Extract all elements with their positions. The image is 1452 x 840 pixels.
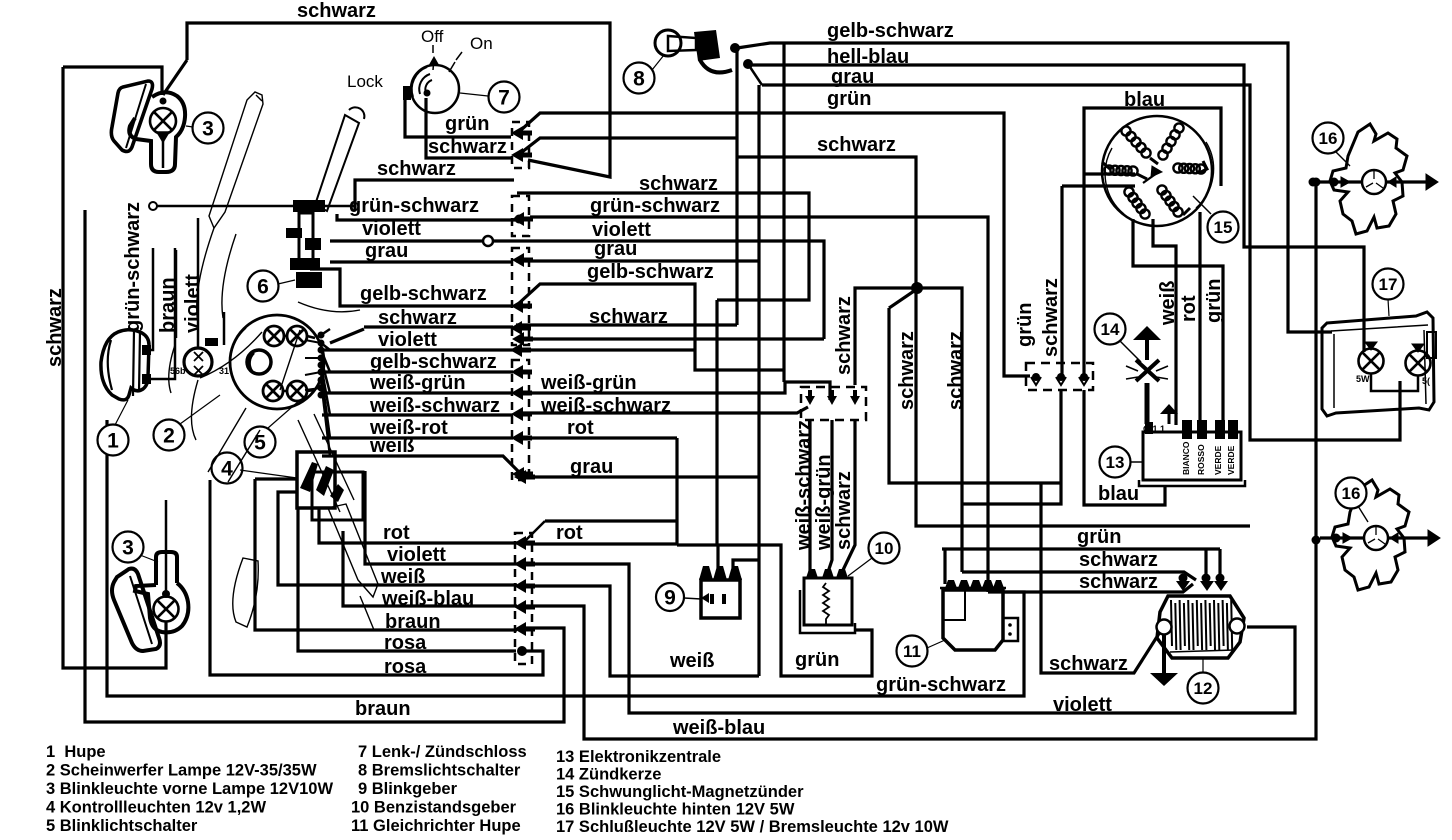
blinker16 bottom left terminal xyxy=(1332,534,1341,543)
svg-text:weiß: weiß xyxy=(380,566,425,588)
svg-text:1: 1 xyxy=(107,429,119,452)
svg-text:3 Blinkleuchte vorne Lampe 12V: 3 Blinkleuchte vorne Lampe 12V10W xyxy=(46,780,333,798)
headlamp lamp connection stubs xyxy=(284,336,315,391)
wire grau left row xyxy=(330,260,513,263)
svg-text:grün: grün xyxy=(827,88,871,110)
svg-text:7 Lenk-/ Zündschloss: 7 Lenk-/ Zündschloss xyxy=(358,743,527,761)
switchbox second body xyxy=(312,472,363,520)
svg-text:3: 3 xyxy=(202,117,214,140)
svg-text:Off: Off xyxy=(421,27,444,46)
svg-text:16: 16 xyxy=(1319,129,1338,148)
blinker top terminal dot xyxy=(160,98,167,105)
headlamp pilot lamp 3 xyxy=(263,381,283,401)
leader circle 16 bottom xyxy=(1358,506,1368,522)
taillight lamp1 arrow xyxy=(1365,342,1377,350)
designator circle 3 bottom xyxy=(113,532,144,563)
wire schwarz magneto stub xyxy=(1062,184,1135,187)
wire row 339 xyxy=(519,337,824,340)
wire weiss-schwarz right row xyxy=(522,407,808,413)
wire rot jog diagonal xyxy=(522,521,545,544)
designator circle 15 xyxy=(1208,212,1239,243)
wire vertical brake to weiss-gruen jog xyxy=(782,43,785,382)
svg-text:grün-schwarz: grün-schwarz xyxy=(590,195,720,217)
svg-text:grau: grau xyxy=(365,240,408,262)
svg-text:braun: braun xyxy=(385,611,441,633)
magneto coil end marks xyxy=(1102,158,1207,215)
wire braun left vertical to bottom xyxy=(85,210,564,722)
magneto coil SE xyxy=(1157,185,1182,216)
wire violett left row xyxy=(330,239,484,242)
svg-text:ROSSO: ROSSO xyxy=(1196,444,1206,475)
designator circle 6 xyxy=(248,271,279,302)
headlamp bundle terminal 1 xyxy=(318,340,325,347)
wire rot feed blinkgeber xyxy=(716,545,719,568)
svg-text:grau: grau xyxy=(831,66,874,88)
fuel gauge connector dashed box xyxy=(801,387,866,420)
svg-text:rot: rot xyxy=(1178,295,1200,322)
svg-text:16: 16 xyxy=(1342,484,1361,503)
rectifier terminal dots xyxy=(1202,574,1211,583)
wire braun switchbox vertical xyxy=(255,479,517,630)
ignition arrow xyxy=(430,57,438,64)
svg-text:2 Scheinwerfer Lampe 12V-35/35: 2 Scheinwerfer Lampe 12V-35/35W xyxy=(46,762,317,780)
pin gelb-schwarz A xyxy=(511,299,532,313)
wire schwarz long mid vertical xyxy=(916,288,1250,526)
svg-text:5: 5 xyxy=(254,431,266,454)
wire weiss-schwarz headlamp row xyxy=(322,413,513,416)
wire gelb-schwarz left row xyxy=(310,269,511,306)
blinker bottom terminal xyxy=(162,590,170,598)
headlamp bundle terminal 7 xyxy=(318,385,325,392)
svg-text:11: 11 xyxy=(903,642,921,661)
wire blau pin3 to box13 xyxy=(1084,390,1165,505)
wire schwarz headlamp row xyxy=(330,329,364,343)
wire schwarz magneto connector pin2 up xyxy=(1060,186,1063,376)
leader circle 1 xyxy=(115,400,128,425)
lamp blinker front bottom xyxy=(154,597,179,622)
taillight inner wire xyxy=(1371,374,1418,391)
blinker bottom wire xyxy=(165,622,168,668)
switch6 wire to terminal xyxy=(157,205,355,208)
svg-text:schwarz: schwarz xyxy=(1079,549,1158,571)
brake light switch plunger xyxy=(668,36,696,51)
svg-text:10 Benzistandsgeber: 10 Benzistandsgeber xyxy=(351,799,517,817)
wire weiss-blau switchbox row xyxy=(343,531,517,606)
junction rosa connector xyxy=(517,646,527,656)
svg-text:hell-blau: hell-blau xyxy=(827,46,909,68)
blinker top lamp arrow down xyxy=(157,132,169,142)
pin gelb-schwarz head xyxy=(511,365,532,379)
ignition tick on xyxy=(449,62,455,72)
taillight feed from below xyxy=(1399,391,1402,440)
lamp blinker front top xyxy=(150,108,176,134)
wire weiss headlamp row xyxy=(322,456,519,472)
junction grün-schwarz pin xyxy=(515,215,524,224)
svg-text:schwarz: schwarz xyxy=(378,307,457,329)
spark plug gap burst xyxy=(1126,360,1168,381)
headlamp bundle terminal 3 xyxy=(318,355,325,362)
magneto center arrowhead xyxy=(1151,166,1162,177)
svg-text:14: 14 xyxy=(1101,320,1120,339)
pin weiß-blau low xyxy=(514,600,535,614)
svg-text:6: 6 xyxy=(257,275,269,298)
wire fuel pin3 down xyxy=(843,420,855,570)
wire grün connector to magneto connector xyxy=(521,113,1030,376)
svg-text:56b: 56b xyxy=(170,366,186,376)
magneto (15) flywheel xyxy=(1102,116,1212,226)
svg-text:grün-schwarz: grün-schwarz xyxy=(876,674,1006,696)
brake switch wire down xyxy=(748,64,762,85)
fuel connector pin weiß-schwarz xyxy=(805,390,815,405)
designator circle 12 xyxy=(1188,673,1219,704)
leader circle 5 xyxy=(268,400,300,428)
svg-text:weiß-grün: weiß-grün xyxy=(369,372,466,394)
ignition switch body (7) xyxy=(411,65,459,113)
svg-text:violett: violett xyxy=(387,544,446,566)
svg-text:rot: rot xyxy=(556,522,583,544)
svg-text:braun: braun xyxy=(355,698,411,720)
leader circle 12 xyxy=(1202,659,1204,672)
svg-text:blau: blau xyxy=(1124,89,1165,111)
wire blinker16 top lamp line xyxy=(1313,180,1428,183)
svg-text:Lock: Lock xyxy=(347,72,383,91)
svg-text:rosa: rosa xyxy=(384,656,427,678)
ignition dash on xyxy=(456,52,462,60)
svg-text:5 Blinklichtschalter: 5 Blinklichtschalter xyxy=(46,817,198,835)
leader circle 11 xyxy=(927,640,945,648)
fuel connector pin schwarz xyxy=(850,390,860,405)
wire grün-schwarz left vertical to bottom xyxy=(107,420,1024,696)
svg-text:15 Schwunglicht-Magnetzünder: 15 Schwunglicht-Magnetzünder xyxy=(556,783,804,801)
switch 6 small terminal circle xyxy=(149,202,157,210)
svg-text:weiß-grün: weiß-grün xyxy=(813,454,835,551)
svg-text:8: 8 xyxy=(633,67,645,90)
taillight (17) housing xyxy=(1322,312,1434,416)
fuel connector pin weiß-grün xyxy=(827,390,837,405)
svg-text:weiß-schwarz: weiß-schwarz xyxy=(369,395,500,417)
svg-text:blau: blau xyxy=(1098,483,1139,505)
spark plug arrow top xyxy=(1133,326,1161,340)
terminal violett open circle xyxy=(483,236,493,246)
gleichrichter side connector dots xyxy=(1008,623,1012,627)
wire gelb-schwarz right row xyxy=(517,284,784,370)
elektronikzentrale (13) body xyxy=(1143,432,1241,480)
svg-text:VERDE: VERDE xyxy=(1226,445,1236,475)
svg-text:rot: rot xyxy=(383,522,410,544)
pin schwarz ignition xyxy=(511,148,532,162)
elektronikzentrale terminal labels xyxy=(1181,441,1236,475)
pin grau xyxy=(512,253,533,267)
wire schwarz junction to rectifier feed right xyxy=(917,288,962,572)
horn wire down xyxy=(146,248,153,350)
wire gruen rectifier v2 xyxy=(1218,549,1221,578)
headlamp bundle terminal 8 xyxy=(318,392,325,399)
svg-text:7: 7 xyxy=(498,86,510,109)
svg-text:grün: grün xyxy=(1014,303,1036,347)
magneto coil NE xyxy=(1158,123,1183,159)
spark plug lead xyxy=(1145,383,1150,424)
wire rot vertical upper xyxy=(675,438,678,545)
brake light switch lever xyxy=(700,60,732,72)
wire schwarz left row from switch6 xyxy=(355,180,514,210)
leader circle 2 xyxy=(180,395,220,424)
rear blinker bottom (16b) lamp xyxy=(1364,526,1388,550)
headlamp bundle terminal 0 xyxy=(318,332,325,339)
rectifier ground stem xyxy=(1162,634,1166,673)
rectifier top terminals xyxy=(1176,581,1228,591)
connector block C (headlamp wires) xyxy=(512,360,529,480)
kontrolllampe terminal mark xyxy=(205,338,218,346)
leader circle 3 xyxy=(186,126,193,127)
blinker16 bottom lamp arrow xyxy=(1390,533,1398,543)
headlamp bundle terminal 6 xyxy=(318,377,325,384)
leader circle 3 bottom xyxy=(140,555,158,562)
svg-text:schwarz: schwarz xyxy=(639,173,718,195)
svg-text:5W: 5W xyxy=(1356,374,1370,384)
kontrolllampe wire label braun xyxy=(175,250,178,338)
designator circle 8 xyxy=(624,63,655,94)
wire hell-blau brake switch xyxy=(750,65,1364,352)
wire schwarz top from blinker3 to ignition connector xyxy=(187,23,610,177)
wire weiss lower right row xyxy=(523,586,759,676)
wire schwarz jog down xyxy=(889,308,1061,483)
magneto center arrow xyxy=(1143,173,1157,183)
taillight right tab xyxy=(1427,332,1436,358)
wire grau brake switch to taillight xyxy=(762,85,1400,440)
wire grau lower right row xyxy=(523,475,759,478)
svg-text:braun: braun xyxy=(157,277,179,333)
rear blinker bottom (16b) housing xyxy=(1332,480,1409,590)
wire blau magneto stub xyxy=(1084,172,1135,175)
magneto connector pin 3 xyxy=(1080,373,1088,381)
headlamp bundle fan xyxy=(321,329,330,335)
svg-text:schwarz: schwarz xyxy=(1079,571,1158,593)
switchbox inner arrows xyxy=(300,462,344,502)
svg-text:3: 3 xyxy=(122,536,134,559)
rear blinker top (16) housing xyxy=(1330,124,1407,234)
designator circle 4 xyxy=(212,453,243,484)
wire violett switchbox row xyxy=(365,471,517,564)
svg-text:gelb-schwarz: gelb-schwarz xyxy=(370,351,497,373)
wire schwarz left box xyxy=(63,67,162,95)
benzistandsgeber (10) body xyxy=(804,578,852,625)
svg-text:schwarz: schwarz xyxy=(1040,278,1062,357)
pin rot low xyxy=(514,536,535,550)
pin weiß xyxy=(512,467,533,481)
svg-text:schwarz: schwarz xyxy=(833,471,855,550)
brake light switch black body xyxy=(694,30,720,61)
ignition tick off xyxy=(433,58,434,70)
designator circle 1 xyxy=(98,425,129,456)
leader circle 13 xyxy=(1130,461,1143,463)
svg-text:schwarz: schwarz xyxy=(589,306,668,328)
blinker bottom lens inner line xyxy=(130,576,152,644)
ignition contact dot xyxy=(424,90,431,97)
headlamp main bulb crescent xyxy=(248,353,254,371)
leader circle 8 xyxy=(652,55,664,70)
rectifier right eyelet xyxy=(1230,619,1245,634)
wire schwarz junction diagonal xyxy=(889,289,917,308)
wire magneto out rot xyxy=(1198,212,1201,425)
taillight lamp 1 xyxy=(1359,349,1384,374)
blinker front top lens (3) xyxy=(111,81,152,151)
designator circle 9 xyxy=(656,583,684,611)
blinker top stem wire xyxy=(162,140,165,168)
headlamp pilot lamp 1 xyxy=(264,326,284,346)
wire blau frame xyxy=(1084,108,1221,186)
designator circle 13 xyxy=(1100,447,1131,478)
svg-text:weiß: weiß xyxy=(1157,281,1179,326)
magneto coil E xyxy=(1173,163,1205,173)
horn (1) body xyxy=(101,330,149,400)
svg-text:11 Gleichrichter Hupe: 11 Gleichrichter Hupe xyxy=(351,817,521,835)
wire grau weiss shared vertical xyxy=(757,85,760,676)
svg-text:grün: grün xyxy=(445,113,489,135)
svg-text:schwarz: schwarz xyxy=(297,0,376,22)
svg-text:schwarz: schwarz xyxy=(833,296,855,375)
junction blinker16 top xyxy=(1312,178,1321,187)
headlamp pilot lamp 2 xyxy=(287,326,307,346)
junction schwarz ignition net xyxy=(911,282,923,294)
svg-text:violett: violett xyxy=(1053,694,1112,716)
gleichrichter terminal bar xyxy=(940,587,1006,590)
designator circle 16 top xyxy=(1313,123,1344,154)
magneto connector dashed box xyxy=(1026,363,1093,390)
svg-text:schwarz: schwarz xyxy=(817,134,896,156)
wire schwarz connector to junction part2 xyxy=(737,157,916,288)
wire gruen rectifier left end xyxy=(943,549,946,584)
blinker16 left terminal xyxy=(1330,178,1339,187)
wire gruen blinkgeber xyxy=(715,300,718,545)
magneto coil NW xyxy=(1121,126,1150,157)
designator circle 7 xyxy=(489,82,520,113)
gleichrichter inner line xyxy=(943,590,965,620)
ignition switch key slot xyxy=(403,86,411,100)
wire schwarz connector to junction part1 xyxy=(522,138,737,152)
gleichrichter terminals xyxy=(945,580,1004,588)
svg-text:gelb-schwarz: gelb-schwarz xyxy=(827,20,954,42)
svg-text:gelb-schwarz: gelb-schwarz xyxy=(587,261,714,283)
kontrolllampe wire right xyxy=(223,312,226,345)
wire blinker16top feed xyxy=(1313,180,1316,183)
svg-text:12: 12 xyxy=(1194,679,1213,698)
designator circle 16 bottom xyxy=(1336,478,1367,509)
svg-text:weiß-schwarz: weiß-schwarz xyxy=(793,420,815,551)
wire schwarz2 upper xyxy=(517,193,809,300)
wire grün-schwarz left row xyxy=(337,214,517,220)
taillight lamp 2 xyxy=(1406,351,1431,376)
svg-text:BIANCO: BIANCO xyxy=(1181,441,1191,475)
wire rosa left vertical xyxy=(209,480,212,560)
magneto inner arcs xyxy=(1105,142,1213,214)
pin grün ignition xyxy=(511,126,532,140)
svg-text:schwarz: schwarz xyxy=(44,288,66,367)
connector block B xyxy=(512,248,529,345)
brake light switch (8) body xyxy=(655,30,681,56)
svg-text:13 Elektronikzentrale: 13 Elektronikzentrale xyxy=(556,748,721,766)
kontrolllampe wire up xyxy=(197,218,200,347)
magneto connector pin schwarz xyxy=(1057,373,1065,381)
wire rot jog horizontal xyxy=(545,519,676,522)
wire rot lower right row xyxy=(523,542,677,545)
horn wire 2 xyxy=(146,248,175,379)
wire magneto out weiss xyxy=(1153,219,1176,425)
svg-text:weiß-blau: weiß-blau xyxy=(672,717,765,739)
gleichrichter (11) body xyxy=(943,590,1003,650)
switchbox blinklichtschalter body xyxy=(297,452,335,508)
benzistandsgeber float coil xyxy=(823,583,829,625)
connector block D (switchbox wires) xyxy=(515,533,532,664)
horn terminal top xyxy=(142,345,151,355)
headlamp bundle terminal 2 xyxy=(318,347,325,354)
svg-text:grau: grau xyxy=(594,238,637,260)
wire weiss-gruen headlamp row xyxy=(322,391,513,394)
blinkgeber inner marks xyxy=(712,594,724,604)
wire weiss terminal3 stub xyxy=(733,560,759,568)
wire gruen rectifier feed xyxy=(942,547,1220,550)
svg-text:weiß-grün: weiß-grün xyxy=(540,372,637,394)
designator circle 5 xyxy=(245,427,276,458)
headlamp inner rim xyxy=(230,328,246,386)
svg-text:16 Blinkleuchte hinten 12V 5W: 16 Blinkleuchte hinten 12V 5W xyxy=(556,801,795,819)
svg-text:schwarz: schwarz xyxy=(896,331,918,410)
svg-text:14 Zündkerze: 14 Zündkerze xyxy=(556,766,661,784)
blinker front top body xyxy=(129,92,185,172)
pin braun low xyxy=(514,622,535,636)
benzistandsgeber terminals xyxy=(806,569,848,578)
headlamp bundle line2 xyxy=(305,357,321,359)
elektronikzentrale bottom plate xyxy=(1139,480,1245,486)
leader circle 14 xyxy=(1120,341,1141,362)
wire schwarz magneto pin2 down xyxy=(962,390,1061,504)
designator circle 14 xyxy=(1095,314,1126,345)
taillight inner lines xyxy=(1331,325,1428,408)
magneto coil W xyxy=(1104,165,1137,175)
pin weiß-rot xyxy=(511,431,532,445)
blinker16 bottom inner arrow xyxy=(1343,533,1352,543)
switch 6 handlebar switch housing xyxy=(286,200,325,288)
svg-text:17: 17 xyxy=(1379,275,1398,294)
headlamp bundle line3 xyxy=(305,372,321,375)
benzistandsgeber outer shell xyxy=(800,590,855,633)
wire grün-schwarz right to gleichrichter xyxy=(530,217,988,592)
wire gruen brake vertical xyxy=(735,48,738,325)
svg-text:5(: 5( xyxy=(1422,376,1430,386)
wire gruen blinkgeber 2 xyxy=(677,545,872,676)
svg-text:rosa: rosa xyxy=(384,632,427,654)
designator circle 3 top xyxy=(193,113,224,144)
ignition dash off xyxy=(432,45,434,53)
blinkgeber terminals xyxy=(699,566,742,580)
spark plug stem xyxy=(1145,340,1149,360)
svg-text:schwarz: schwarz xyxy=(1049,653,1128,675)
svg-text:15: 15 xyxy=(1214,218,1233,237)
junction weiß-blau blinker16 bottom xyxy=(1312,536,1321,545)
wire schwarz row to corner xyxy=(516,323,737,326)
wire rosa switchbox row xyxy=(298,507,516,651)
elektronikzentrale terminals xyxy=(1145,420,1238,439)
pin weiß low xyxy=(514,579,535,593)
taillight lamp2 arrow xyxy=(1412,344,1424,352)
svg-text:17 Schlußleuchte 12V 5W / Brem: 17 Schlußleuchte 12V 5W / Bremsleuchte 1… xyxy=(556,818,949,836)
designator circle 11 xyxy=(897,636,928,667)
leader circle 9 xyxy=(684,598,701,599)
headlamp pilot lamp 4 xyxy=(287,381,307,401)
headlamp main bulb xyxy=(247,350,271,374)
blinker front bottom lens xyxy=(112,569,160,651)
pin violett head xyxy=(510,343,531,357)
leader circle 7 xyxy=(460,93,488,96)
